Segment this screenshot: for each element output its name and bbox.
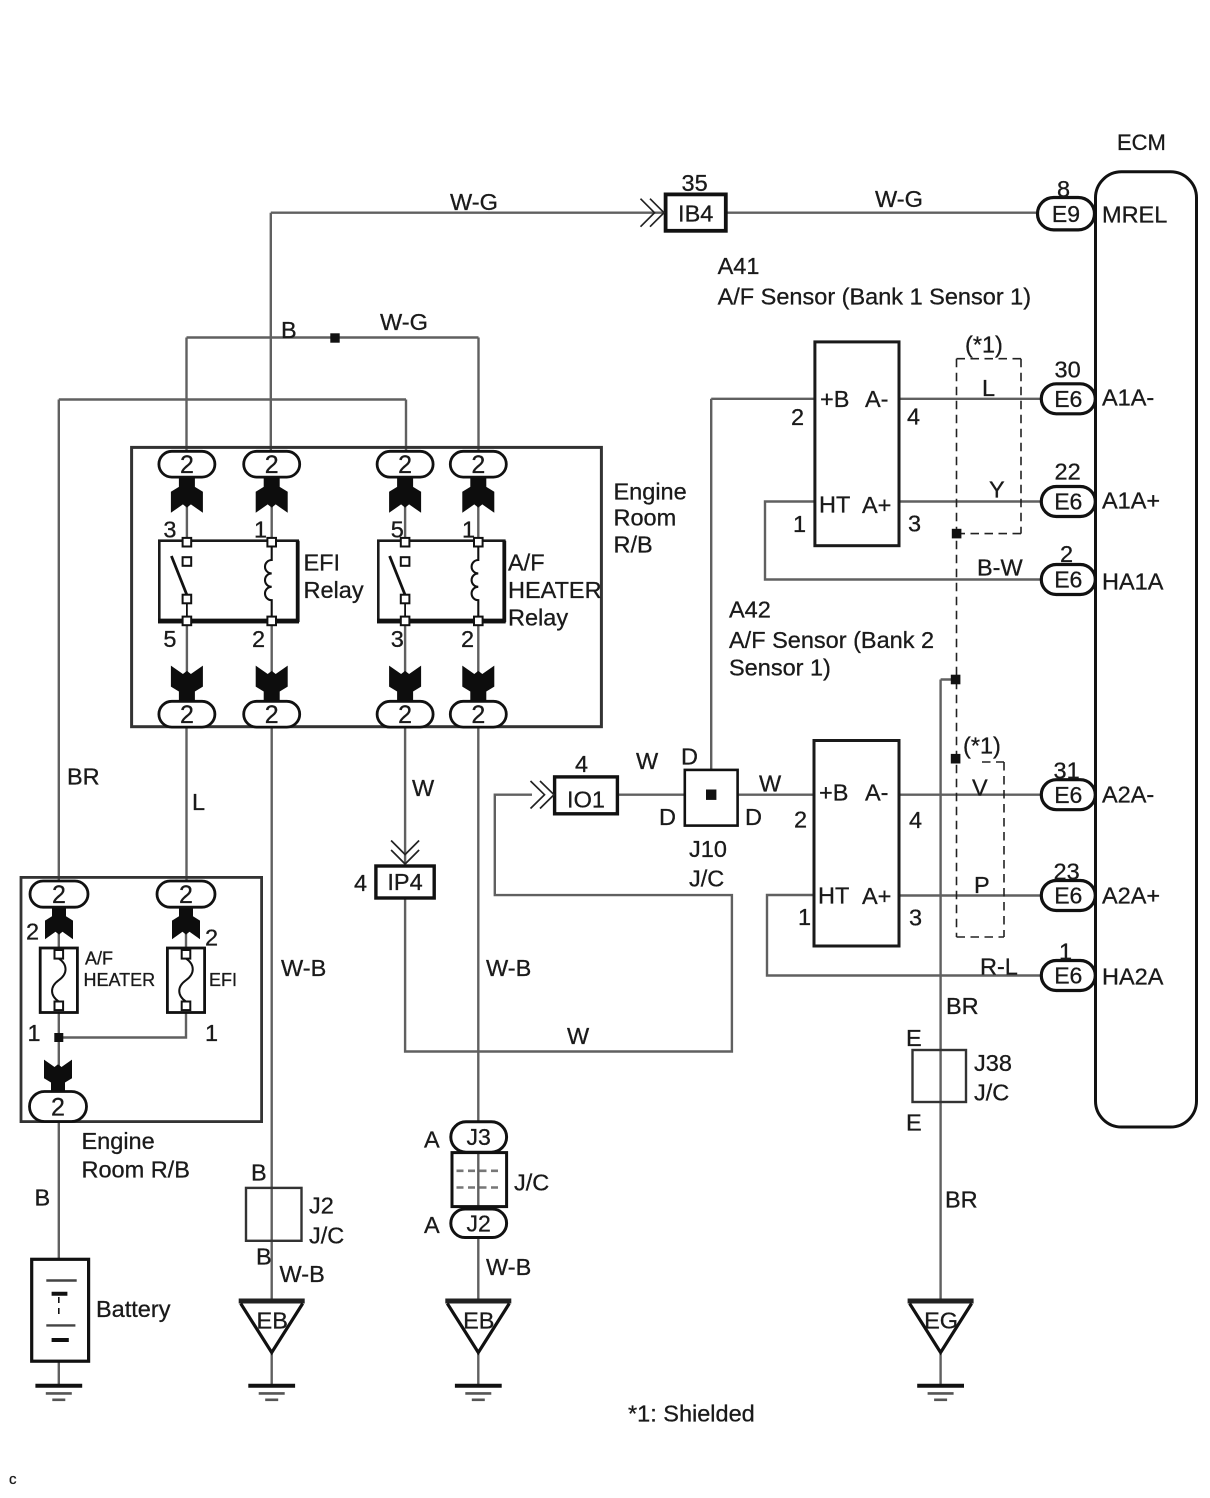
svg-text:8: 8 <box>1057 176 1070 202</box>
svg-text:22: 22 <box>1055 459 1081 485</box>
svg-text:+B: +B <box>820 386 849 412</box>
svg-text:L: L <box>982 375 995 401</box>
svg-text:A/F Sensor (Bank 2: A/F Sensor (Bank 2 <box>729 627 934 653</box>
svg-text:HEATER: HEATER <box>508 577 602 603</box>
svg-text:A1A-: A1A- <box>1102 385 1154 411</box>
svg-text:A+: A+ <box>862 883 891 909</box>
svg-text:E6: E6 <box>1054 883 1082 909</box>
svg-text:BR: BR <box>945 1187 978 1213</box>
svg-text:A2A+: A2A+ <box>1102 883 1160 909</box>
svg-text:HT: HT <box>818 883 849 909</box>
svg-text:23: 23 <box>1054 859 1080 885</box>
svg-text:EG: EG <box>924 1308 958 1334</box>
svg-text:E9: E9 <box>1052 201 1080 227</box>
svg-text:4: 4 <box>575 751 588 777</box>
svg-text:J2: J2 <box>467 1210 491 1236</box>
svg-text:E: E <box>906 1025 922 1051</box>
svg-text:W: W <box>759 771 782 797</box>
svg-text:1: 1 <box>1059 939 1072 965</box>
svg-text:W-B: W-B <box>486 955 531 981</box>
svg-text:c: c <box>9 1471 17 1488</box>
svg-text:A/F Sensor (Bank 1 Sensor 1): A/F Sensor (Bank 1 Sensor 1) <box>718 284 1031 310</box>
svg-text:W: W <box>567 1023 590 1049</box>
svg-text:5: 5 <box>391 517 404 543</box>
svg-text:(*1): (*1) <box>963 733 1001 759</box>
svg-text:A2A-: A2A- <box>1102 782 1154 808</box>
svg-text:HA2A: HA2A <box>1102 964 1164 990</box>
svg-text:R-L: R-L <box>980 954 1018 980</box>
svg-text:Engine: Engine <box>82 1128 155 1154</box>
svg-text:1: 1 <box>28 1020 41 1046</box>
svg-text:2: 2 <box>461 626 474 652</box>
svg-text:W-B: W-B <box>486 1254 531 1280</box>
svg-text:(*1): (*1) <box>965 332 1003 358</box>
svg-text:W-B: W-B <box>281 955 326 981</box>
svg-text:EFI: EFI <box>209 970 237 990</box>
svg-text:E6: E6 <box>1054 782 1082 808</box>
svg-text:J/C: J/C <box>974 1080 1009 1106</box>
svg-text:EB: EB <box>463 1308 494 1334</box>
svg-text:J2: J2 <box>309 1193 334 1219</box>
svg-text:B: B <box>256 1244 272 1270</box>
svg-text:2: 2 <box>51 1093 65 1121</box>
svg-text:1: 1 <box>798 904 811 930</box>
svg-text:L: L <box>192 789 205 815</box>
svg-text:2: 2 <box>180 701 194 729</box>
svg-text:J/C: J/C <box>309 1223 344 1249</box>
svg-text:2: 2 <box>471 701 485 729</box>
svg-text:D: D <box>659 804 676 830</box>
svg-text:B-W: B-W <box>977 555 1024 581</box>
svg-text:2: 2 <box>794 807 807 833</box>
svg-text:E6: E6 <box>1054 567 1082 593</box>
svg-text:Relay: Relay <box>304 577 364 603</box>
svg-text:A: A <box>424 1212 440 1238</box>
svg-text:B: B <box>251 1160 267 1186</box>
svg-text:A/F: A/F <box>85 949 113 969</box>
svg-text:IB4: IB4 <box>678 201 713 227</box>
svg-text:R/B: R/B <box>614 532 653 558</box>
svg-text:*1: Shielded: *1: Shielded <box>628 1401 755 1427</box>
svg-text:E: E <box>906 1110 922 1136</box>
svg-text:A42: A42 <box>729 597 771 623</box>
svg-text:4: 4 <box>909 807 922 833</box>
svg-text:1: 1 <box>462 517 475 543</box>
svg-text:D: D <box>745 804 762 830</box>
svg-text:5: 5 <box>163 626 176 652</box>
svg-text:W-G: W-G <box>380 309 428 335</box>
svg-text:1: 1 <box>254 517 267 543</box>
svg-text:IO1: IO1 <box>567 787 605 813</box>
svg-text:31: 31 <box>1054 758 1080 784</box>
svg-text:2: 2 <box>252 626 265 652</box>
svg-text:4: 4 <box>907 404 920 430</box>
svg-text:E6: E6 <box>1054 489 1082 515</box>
svg-text:Room: Room <box>614 505 677 531</box>
svg-text:Engine: Engine <box>614 479 687 505</box>
svg-text:2: 2 <box>52 881 66 909</box>
svg-text:35: 35 <box>682 170 708 196</box>
svg-text:V: V <box>972 775 988 801</box>
svg-text:Y: Y <box>989 477 1005 503</box>
svg-text:A/F: A/F <box>508 550 545 576</box>
svg-text:2: 2 <box>791 404 804 430</box>
svg-text:3: 3 <box>391 626 404 652</box>
svg-text:W: W <box>412 775 435 801</box>
svg-text:J10: J10 <box>689 836 727 862</box>
svg-text:MREL: MREL <box>1102 202 1167 228</box>
svg-text:W-G: W-G <box>450 189 498 215</box>
svg-text:E6: E6 <box>1054 386 1082 412</box>
svg-text:J/C: J/C <box>689 866 724 892</box>
svg-text:2: 2 <box>398 701 412 729</box>
svg-text:A41: A41 <box>718 253 760 279</box>
svg-text:2: 2 <box>265 451 279 479</box>
svg-text:Room R/B: Room R/B <box>82 1157 190 1183</box>
svg-text:2: 2 <box>471 451 485 479</box>
svg-text:1: 1 <box>205 1020 218 1046</box>
svg-text:W-G: W-G <box>875 186 923 212</box>
svg-text:2: 2 <box>265 701 279 729</box>
svg-text:30: 30 <box>1055 357 1081 383</box>
svg-text:HEATER: HEATER <box>84 970 156 990</box>
svg-text:J/C: J/C <box>514 1170 549 1196</box>
svg-text:ECM: ECM <box>1117 130 1166 155</box>
svg-text:D: D <box>681 744 698 770</box>
svg-text:W: W <box>636 748 659 774</box>
svg-text:2: 2 <box>180 451 194 479</box>
svg-text:IP4: IP4 <box>387 869 422 895</box>
svg-text:HA1A: HA1A <box>1102 569 1164 595</box>
svg-text:BR: BR <box>67 764 100 790</box>
svg-text:HT: HT <box>819 492 850 518</box>
svg-text:EB: EB <box>257 1308 288 1334</box>
svg-text:2: 2 <box>205 925 218 951</box>
svg-text:Battery: Battery <box>96 1296 171 1322</box>
svg-text:Sensor 1): Sensor 1) <box>729 655 831 681</box>
svg-text:A-: A- <box>865 386 889 412</box>
svg-text:J38: J38 <box>974 1050 1012 1076</box>
svg-text:2: 2 <box>179 881 193 909</box>
svg-text:W-B: W-B <box>280 1261 325 1287</box>
svg-text:+B: +B <box>819 780 848 806</box>
svg-text:4: 4 <box>354 870 367 896</box>
svg-text:B: B <box>281 317 297 343</box>
svg-text:EFI: EFI <box>304 550 341 576</box>
svg-text:P: P <box>974 872 990 898</box>
svg-text:3: 3 <box>908 511 921 537</box>
svg-text:A: A <box>424 1127 440 1153</box>
svg-text:A-: A- <box>865 780 889 806</box>
svg-text:2: 2 <box>26 919 39 945</box>
svg-text:1: 1 <box>793 511 806 537</box>
svg-text:E6: E6 <box>1054 963 1082 989</box>
svg-text:3: 3 <box>163 517 176 543</box>
svg-text:BR: BR <box>946 993 979 1019</box>
svg-text:Relay: Relay <box>508 605 568 631</box>
svg-text:A+: A+ <box>862 492 891 518</box>
svg-text:J3: J3 <box>467 1124 491 1150</box>
svg-text:2: 2 <box>1060 541 1073 567</box>
svg-text:3: 3 <box>909 905 922 931</box>
svg-text:B: B <box>35 1185 51 1211</box>
svg-text:A1A+: A1A+ <box>1102 488 1160 514</box>
svg-text:2: 2 <box>398 451 412 479</box>
